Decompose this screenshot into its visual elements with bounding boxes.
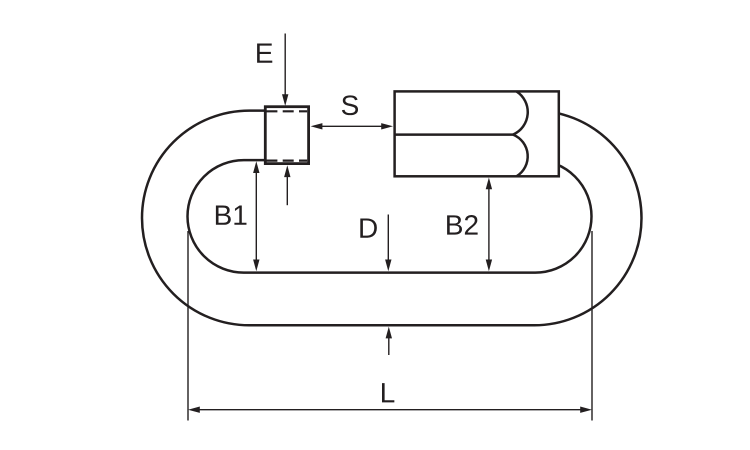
dimension B2 double arrow: [486, 178, 492, 272]
label L: [382, 383, 394, 402]
extension line right: [591, 231, 593, 421]
dimension L double arrow: [188, 407, 592, 413]
label S: [342, 95, 358, 115]
extension line left: [187, 231, 189, 421]
dimension D arrow up below: [386, 327, 392, 355]
label D: [360, 218, 377, 237]
hidden wire dashed line top: [266, 110, 307, 112]
hidden wire dashed line bottom: [266, 160, 307, 162]
label E: [257, 44, 272, 63]
label B2: [447, 215, 478, 235]
screw sleeve body: [395, 91, 559, 176]
upper rod end cap: [513, 91, 528, 134]
inner contour of link body: [188, 160, 592, 273]
gate stop square: [265, 107, 308, 164]
lower rod end cap: [513, 135, 528, 177]
dimension E arrow up below square: [284, 165, 290, 205]
dimension D arrow down: [385, 215, 391, 272]
dimension S double arrow: [311, 123, 393, 129]
sleeve mid line: [395, 133, 513, 136]
dimension B1 double arrow: [253, 161, 259, 271]
gap opening mask: [306, 100, 396, 180]
dimension E arrow down: [282, 34, 288, 107]
outer contour of link body: [142, 111, 642, 326]
label B1: [216, 206, 247, 225]
